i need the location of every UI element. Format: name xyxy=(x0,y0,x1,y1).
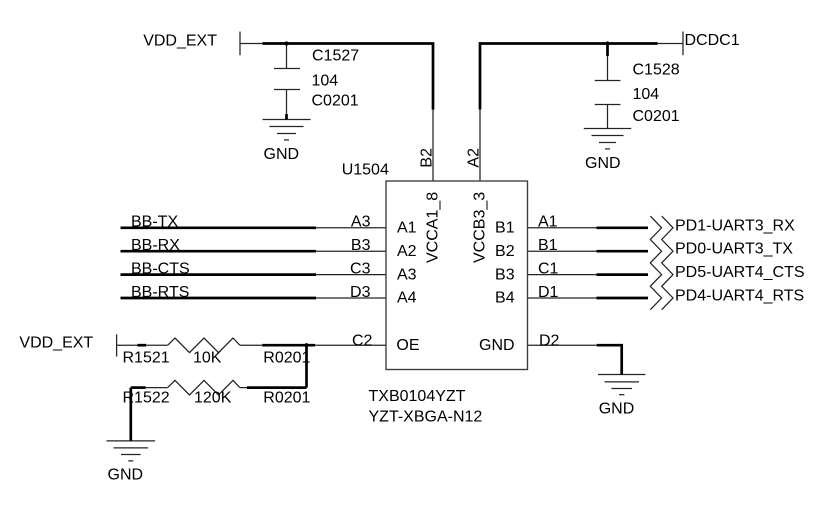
svg-text:B3: B3 xyxy=(351,237,371,254)
svg-text:DCDC1: DCDC1 xyxy=(685,32,740,49)
svg-text:A2: A2 xyxy=(466,148,483,168)
svg-text:R0201: R0201 xyxy=(263,390,310,407)
svg-text:VCCB3_3: VCCB3_3 xyxy=(471,192,488,263)
svg-text:10K: 10K xyxy=(193,350,222,367)
svg-text:C3: C3 xyxy=(350,260,371,277)
svg-text:R1522: R1522 xyxy=(123,390,170,407)
svg-text:D2: D2 xyxy=(539,332,560,349)
svg-text:A3: A3 xyxy=(397,266,417,283)
svg-text:PD5-UART4_CTS: PD5-UART4_CTS xyxy=(675,264,805,281)
svg-text:GND: GND xyxy=(264,146,300,163)
svg-text:R0201: R0201 xyxy=(263,350,310,367)
svg-text:B4: B4 xyxy=(495,290,515,307)
svg-text:A1: A1 xyxy=(397,220,417,237)
svg-text:BB-CTS: BB-CTS xyxy=(131,260,190,277)
svg-text:BB-RX: BB-RX xyxy=(131,237,180,254)
svg-text:A4: A4 xyxy=(397,290,417,307)
svg-text:PD0-UART3_TX: PD0-UART3_TX xyxy=(675,241,793,258)
svg-text:D3: D3 xyxy=(350,284,371,301)
svg-text:C1: C1 xyxy=(538,260,559,277)
svg-text:C1527: C1527 xyxy=(312,48,359,65)
svg-text:GND: GND xyxy=(108,466,144,483)
svg-text:PD1-UART3_RX: PD1-UART3_RX xyxy=(675,217,795,234)
svg-text:B1: B1 xyxy=(495,220,515,237)
svg-text:BB-RTS: BB-RTS xyxy=(131,284,189,301)
svg-text:C0201: C0201 xyxy=(633,108,680,125)
svg-text:B1: B1 xyxy=(538,237,558,254)
svg-text:C1528: C1528 xyxy=(633,62,680,79)
svg-text:GND: GND xyxy=(599,401,635,418)
svg-text:120K: 120K xyxy=(194,390,232,407)
svg-text:D1: D1 xyxy=(538,284,559,301)
svg-text:C2: C2 xyxy=(352,332,373,349)
svg-text:PD4-UART4_RTS: PD4-UART4_RTS xyxy=(675,288,804,305)
svg-text:A3: A3 xyxy=(351,214,371,231)
svg-text:GND: GND xyxy=(585,155,621,172)
svg-text:C0201: C0201 xyxy=(312,93,359,110)
svg-text:VDD_EXT: VDD_EXT xyxy=(19,334,93,351)
svg-text:104: 104 xyxy=(633,86,660,103)
svg-text:TXB0104YZT: TXB0104YZT xyxy=(369,388,466,405)
svg-text:R1521: R1521 xyxy=(123,350,170,367)
svg-text:A1: A1 xyxy=(538,214,558,231)
svg-text:OE: OE xyxy=(396,337,419,354)
svg-text:BB-TX: BB-TX xyxy=(131,214,178,231)
svg-text:YZT-XBGA-N12: YZT-XBGA-N12 xyxy=(369,408,483,425)
svg-text:A2: A2 xyxy=(397,243,417,260)
svg-text:U1504: U1504 xyxy=(342,161,389,178)
svg-text:VCCA1_8: VCCA1_8 xyxy=(425,192,442,263)
svg-text:B2: B2 xyxy=(495,243,515,260)
svg-text:B3: B3 xyxy=(495,266,515,283)
svg-text:GND: GND xyxy=(479,337,515,354)
svg-text:VDD_EXT: VDD_EXT xyxy=(143,32,217,49)
svg-text:104: 104 xyxy=(312,73,339,90)
svg-text:B2: B2 xyxy=(419,148,436,168)
